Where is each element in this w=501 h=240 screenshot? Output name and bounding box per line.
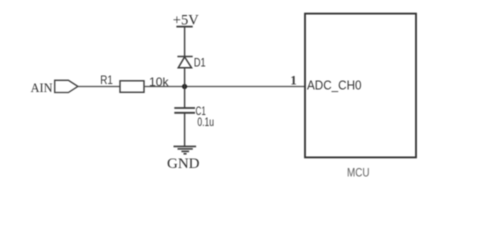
svg-text:MCU: MCU <box>347 166 370 180</box>
wire +5V to diode cathode <box>184 27 186 57</box>
wire capacitor to ground <box>184 113 186 147</box>
ground bar 1 <box>174 145 197 147</box>
svg-text:GND: GND <box>167 156 200 172</box>
port AIN <box>55 80 78 92</box>
capacitor C1 top plate <box>174 107 195 109</box>
MCU box <box>305 14 416 158</box>
wire diode anode to junction <box>184 68 186 87</box>
ground bar 4 <box>184 153 187 155</box>
svg-text:0.1u: 0.1u <box>197 115 214 129</box>
wire junction to MCU pin 1 <box>185 86 305 88</box>
capacitor C1 bottom plate <box>174 112 195 114</box>
svg-text:R1: R1 <box>100 73 113 87</box>
diode D1 cathode bar <box>177 56 192 58</box>
ground bar 3 <box>181 150 189 152</box>
node junction <box>182 84 187 89</box>
wire R1 to junction <box>144 86 185 88</box>
diode D1 triangle <box>178 57 191 68</box>
ground bar 2 <box>178 148 193 150</box>
resistor R1 <box>120 81 144 93</box>
svg-text:ADC_CH0: ADC_CH0 <box>307 78 362 93</box>
wire AIN to R1 <box>78 86 120 88</box>
power +5V bar <box>176 26 192 28</box>
svg-text:D1: D1 <box>194 56 206 70</box>
wire junction to capacitor <box>184 87 186 109</box>
svg-text:AIN: AIN <box>31 81 53 95</box>
svg-text:1: 1 <box>290 73 297 88</box>
